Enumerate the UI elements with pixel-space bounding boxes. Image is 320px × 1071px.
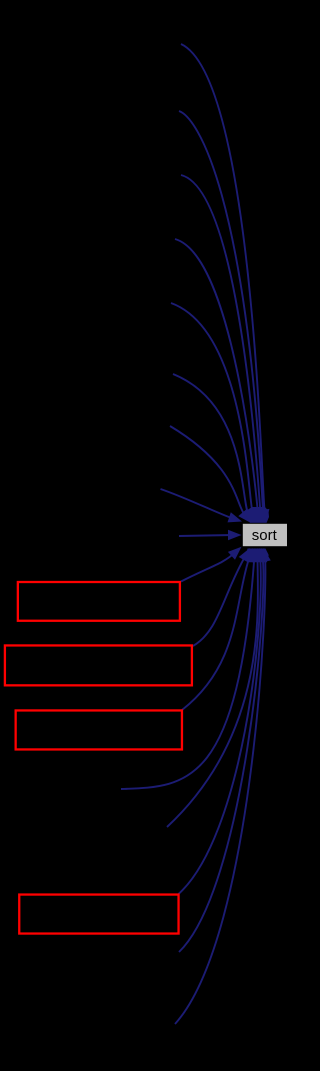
- arrowhead e5: [246, 509, 256, 524]
- arrowhead e2: [258, 509, 269, 523]
- red node box4 (truncated caller, label hidden): [19, 895, 178, 934]
- red node box1 (truncated caller, label hidden): [18, 582, 180, 621]
- edge e2 (caller arrow into sort): [179, 111, 263, 515]
- edge e7 (caller arrow into sort): [170, 426, 246, 517]
- arrowhead e7: [238, 509, 251, 523]
- edge e15 (caller arrow into sort): [179, 556, 261, 894]
- arrowhead e6: [242, 509, 253, 523]
- edge e8 (caller arrow into sort): [161, 489, 235, 519]
- edge e13 (caller arrow into sort): [121, 556, 254, 789]
- arrowhead e15: [255, 548, 266, 562]
- node sort (grey central node): [242, 523, 287, 546]
- red node box3 (truncated caller, label hidden): [16, 710, 182, 749]
- merged arrowhead cluster below sort: [246, 549, 269, 563]
- red node box2 (truncated caller, label hidden): [5, 645, 192, 685]
- edge e17 (caller arrow into sort): [175, 556, 265, 1024]
- edge e12 (caller arrow into sort): [182, 556, 250, 710]
- arrowhead e16: [258, 548, 269, 562]
- edge e1 (caller arrow into sort): [181, 44, 265, 515]
- svg-text:sort: sort: [252, 527, 278, 544]
- edge e4 (caller arrow into sort): [175, 239, 258, 515]
- edge e11 (caller arrow into sort): [193, 555, 246, 646]
- edge e5 (caller arrow into sort): [171, 303, 253, 515]
- edge e10 (caller arrow into sort): [181, 552, 236, 581]
- arrowhead e12: [243, 548, 253, 563]
- edge e14 (caller arrow into sort): [167, 556, 258, 827]
- arrowhead e1: [259, 509, 270, 523]
- edge e9 (caller arrow into sort): [179, 535, 233, 536]
- arrowhead e14: [252, 548, 263, 562]
- edge e16 (caller arrow into sort): [179, 556, 263, 952]
- merged arrowhead cluster above sort: [246, 507, 269, 523]
- edge e3 (caller arrow into sort): [181, 175, 261, 515]
- arrowhead e8: [228, 512, 243, 522]
- arrowhead e17: [260, 548, 270, 562]
- arrowhead e4: [252, 509, 263, 523]
- arrowhead e11: [239, 548, 250, 562]
- edge e6 (caller arrow into sort): [173, 374, 249, 516]
- arrowhead e9: [228, 530, 242, 541]
- arrowhead e10: [228, 547, 242, 560]
- arrowhead e3: [255, 509, 266, 523]
- arrowhead e13: [249, 548, 259, 562]
